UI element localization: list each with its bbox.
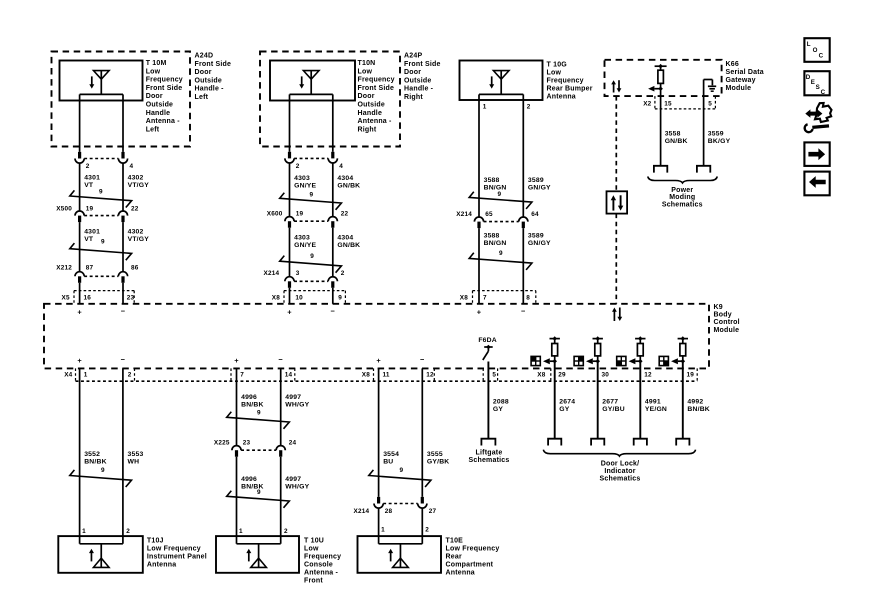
sidebar tools icon (805, 103, 832, 132)
svg-text:4302: 4302 (128, 175, 144, 182)
twisted pair (280, 253, 342, 273)
connector pin bracket a (75, 368, 77, 381)
svg-text:Door: Door (146, 93, 163, 100)
svg-text:3555: 3555 (427, 451, 443, 458)
svg-text:Moding: Moding (669, 194, 695, 201)
svg-text:14: 14 (285, 372, 293, 379)
connector pin box X8 (284, 291, 345, 304)
svg-text:Low: Low (358, 68, 373, 75)
svg-text:Low: Low (146, 68, 161, 75)
svg-text:1: 1 (84, 372, 88, 379)
svg-text:9: 9 (101, 239, 105, 246)
svg-text:Right: Right (358, 126, 377, 133)
svg-text:4301: 4301 (84, 175, 100, 182)
svg-text:15: 15 (664, 100, 672, 107)
svg-text:2674: 2674 (559, 399, 575, 406)
wire 4996 BN/BK (237, 368, 264, 445)
wire 4302 VT/GY (123, 163, 149, 211)
svg-text:Door Lock/: Door Lock/ (601, 461, 640, 468)
connector pin box X8 (473, 291, 536, 304)
twisted pair (70, 467, 132, 487)
svg-text:5: 5 (492, 372, 496, 379)
connector pin box X2 (655, 96, 716, 109)
wire (597, 361, 599, 439)
svg-text:C: C (821, 89, 826, 96)
svg-text:4302: 4302 (128, 228, 144, 235)
svg-text:Antenna: Antenna (147, 562, 176, 569)
pins 7/14 (240, 372, 292, 379)
svg-text:12: 12 (426, 372, 434, 379)
svg-text:WH: WH (128, 459, 140, 466)
svg-text:11: 11 (383, 372, 390, 379)
label Power Moding Schematics (662, 187, 703, 208)
wire (79, 283, 81, 304)
wire 4301 VT (80, 222, 101, 272)
off-page stub (676, 439, 689, 446)
svg-text:3553: 3553 (128, 451, 144, 458)
antenna T10N box (270, 61, 355, 101)
connector X600 pins 19/22 terminals (267, 210, 349, 227)
svg-text:BN/BK: BN/BK (84, 459, 107, 466)
svg-text:Gateway: Gateway (726, 77, 756, 84)
svg-text:X8: X8 (362, 372, 370, 379)
resistor (552, 339, 558, 362)
svg-text:T10E: T10E (446, 538, 464, 545)
resistor (680, 339, 686, 362)
off-page stub 3559 (697, 166, 710, 173)
twisted pair (280, 191, 342, 209)
pins X8 11/12 (362, 372, 434, 379)
connector pin row dotted line (76, 380, 698, 382)
svg-text:S: S (816, 84, 820, 91)
svg-text:4304: 4304 (337, 175, 353, 182)
wire 3589 GN/GY (523, 228, 551, 304)
connector pin bracket h (497, 368, 499, 381)
polarity + - (477, 306, 526, 316)
svg-text:GY: GY (559, 406, 569, 413)
polarity marks above bottom pins (77, 355, 425, 365)
svg-text:GY: GY (493, 406, 503, 413)
svg-text:GY/BU: GY/BU (602, 406, 625, 413)
antenna T10E box (358, 536, 442, 573)
svg-text:Antenna -: Antenna - (146, 118, 181, 125)
svg-text:Frequency: Frequency (358, 77, 395, 84)
svg-text:27: 27 (429, 508, 437, 515)
svg-text:T10J: T10J (147, 538, 164, 545)
svg-text:O: O (813, 47, 818, 54)
svg-text:7: 7 (240, 372, 244, 379)
svg-text:X212: X212 (56, 265, 72, 272)
sidebar back arrow button (804, 172, 829, 196)
pins 1/2 (483, 103, 531, 110)
antenna symbol T10J (80, 544, 123, 568)
svg-text:Low Frequency: Low Frequency (147, 546, 201, 553)
wire (332, 288, 334, 304)
terminating resistor (655, 64, 667, 89)
svg-text:BU: BU (383, 459, 393, 466)
junction node with arrow (671, 358, 685, 364)
junction node (550, 336, 560, 341)
serial data arrows in K66 (611, 80, 621, 92)
svg-text:VT: VT (84, 182, 94, 189)
wire (80, 94, 123, 151)
svg-text:3589: 3589 (528, 232, 544, 239)
svg-text:Front: Front (304, 578, 323, 585)
svg-text:19: 19 (296, 210, 304, 217)
junction node (635, 336, 645, 341)
svg-text:Handle -: Handle - (195, 86, 225, 93)
serial data connector symbol box (607, 191, 628, 213)
connector pin bracket i (550, 368, 552, 381)
svg-text:Front Side: Front Side (146, 85, 183, 92)
svg-text:19: 19 (687, 372, 695, 379)
svg-text:3588: 3588 (484, 232, 500, 239)
svg-text:4992: 4992 (687, 399, 703, 406)
svg-text:86: 86 (131, 265, 139, 272)
svg-text:−: − (331, 306, 336, 315)
svg-text:T10N: T10N (358, 60, 376, 67)
svg-text:3554: 3554 (383, 451, 399, 458)
connector X225 pins 23/24 terminals (214, 439, 297, 456)
connector pin bracket b (134, 368, 136, 381)
svg-text:Body: Body (714, 312, 732, 319)
connector pin bracket j (696, 368, 698, 381)
svg-text:Door: Door (358, 93, 375, 100)
connector pin bracket d (294, 368, 296, 381)
svg-text:23: 23 (127, 294, 135, 301)
junction node (678, 336, 688, 341)
svg-text:WH/GY: WH/GY (285, 484, 309, 491)
pin 5 (492, 372, 496, 379)
svg-text:+: + (376, 356, 381, 365)
connector X500 pins 19/22 terminals (56, 206, 138, 223)
svg-text:8: 8 (526, 294, 530, 301)
polarity + - (287, 306, 335, 316)
svg-text:3558: 3558 (665, 130, 681, 137)
svg-text:Frequency: Frequency (547, 78, 584, 85)
svg-text:Outside: Outside (146, 102, 173, 109)
svg-text:4996: 4996 (241, 476, 257, 483)
wire 3553 WH (123, 368, 144, 543)
svg-text:2: 2 (296, 163, 300, 170)
svg-text:X8: X8 (272, 294, 280, 301)
svg-text:4991: 4991 (645, 399, 661, 406)
svg-text:Left: Left (195, 94, 209, 101)
svg-text:9: 9 (99, 189, 103, 196)
svg-text:4: 4 (339, 163, 343, 170)
svg-text:Front Side: Front Side (195, 61, 232, 68)
pins X8 10/9 (272, 294, 342, 301)
svg-text:T 10G: T 10G (547, 62, 568, 69)
svg-text:Outside: Outside (195, 77, 222, 84)
svg-text:−: − (521, 306, 526, 315)
connector pin box X5 (74, 291, 134, 304)
svg-text:Door: Door (404, 69, 421, 76)
wire (289, 288, 291, 304)
wire 4304 GN/BK (333, 228, 361, 277)
svg-text:−: − (278, 355, 283, 364)
svg-text:4301: 4301 (84, 228, 100, 235)
svg-text:9: 9 (101, 467, 105, 474)
svg-text:A24D: A24D (195, 53, 214, 60)
pins X2 15/5 (643, 100, 712, 107)
label Liftgate Schematics (469, 449, 510, 464)
wire 2088 GY (488, 362, 508, 439)
fuse F6DA (478, 337, 497, 360)
svg-text:3: 3 (296, 270, 300, 277)
antenna symbol T10E (379, 544, 423, 568)
svg-text:65: 65 (485, 211, 493, 218)
wire 3588 BN/GN (479, 94, 523, 216)
connector X214 pins 65/64 terminals (456, 211, 539, 228)
svg-text:22: 22 (341, 210, 349, 217)
wire 4991 YE/GN (645, 399, 667, 414)
svg-text:9: 9 (310, 191, 314, 198)
wire (378, 508, 380, 544)
svg-text:9: 9 (338, 294, 342, 301)
pins 1/2 (381, 527, 429, 534)
svg-text:X600: X600 (267, 210, 283, 217)
svg-text:VT: VT (84, 236, 94, 243)
svg-text:−: − (420, 355, 425, 364)
svg-text:10: 10 (295, 294, 303, 301)
label T 10M Low Frequency Front Side Door Outside Handle Antenna - Left (146, 60, 183, 133)
door indicator icon (531, 356, 540, 365)
svg-text:2088: 2088 (493, 399, 509, 406)
svg-text:BN/GN: BN/GN (484, 240, 507, 247)
svg-text:YE/GN: YE/GN (645, 406, 667, 413)
svg-text:BK/GY: BK/GY (708, 138, 731, 145)
label A24D Front Side Door Outside Handle - Left (195, 53, 232, 102)
antenna T10J box (58, 536, 143, 573)
wire 3588 BN/GN (479, 228, 507, 304)
wire 4303 GN/YE (290, 228, 317, 277)
svg-text:9: 9 (498, 191, 502, 198)
svg-text:Outside: Outside (358, 102, 385, 109)
serial data dashed wire (615, 214, 617, 304)
wire 4301 VT (80, 163, 101, 211)
svg-text:Instrument Panel: Instrument Panel (147, 554, 207, 561)
svg-text:Handle -: Handle - (404, 86, 434, 93)
svg-text:Front Side: Front Side (358, 85, 395, 92)
svg-text:12: 12 (644, 372, 652, 379)
junction node with arrow (629, 358, 643, 364)
module A24D dashed box (52, 52, 191, 147)
wire (554, 361, 556, 439)
svg-text:2: 2 (128, 372, 132, 379)
pins X8 7/8 (460, 294, 531, 301)
svg-text:19: 19 (86, 206, 94, 213)
wire 4302 VT/GY (123, 222, 149, 272)
svg-text:GN/BK: GN/BK (665, 138, 688, 145)
polarity + - (77, 306, 125, 316)
arrows in serial data box (611, 195, 624, 210)
svg-text:+: + (287, 307, 292, 316)
sidebar forward arrow button (804, 142, 829, 166)
svg-text:X214: X214 (354, 508, 370, 515)
svg-text:L: L (807, 41, 811, 48)
pins X5 16/23 (62, 294, 135, 301)
svg-text:16: 16 (84, 294, 92, 301)
svg-text:X214: X214 (264, 270, 280, 277)
svg-text:GN/YE: GN/YE (294, 183, 316, 190)
wire 2677 GY/BU (602, 399, 625, 414)
svg-text:X2: X2 (643, 100, 651, 107)
antenna T 10U box (216, 536, 299, 573)
off-page stub 2088 (481, 439, 495, 446)
svg-text:+: + (77, 356, 82, 365)
svg-text:1: 1 (239, 528, 243, 535)
svg-text:Control: Control (714, 319, 740, 326)
svg-text:Schematics: Schematics (662, 201, 703, 208)
svg-text:X8: X8 (460, 294, 468, 301)
svg-text:VT/GY: VT/GY (128, 182, 150, 189)
brace Door Lock Indicator (543, 450, 695, 456)
svg-text:Rear Bumper: Rear Bumper (547, 86, 593, 93)
svg-text:BN/BK: BN/BK (687, 406, 710, 413)
svg-text:Handle: Handle (146, 110, 171, 117)
svg-text:X5: X5 (62, 294, 70, 301)
svg-text:X4: X4 (64, 372, 72, 379)
svg-text:X225: X225 (214, 439, 230, 446)
svg-text:E: E (811, 79, 815, 86)
svg-text:2677: 2677 (602, 399, 618, 406)
svg-text:Liftgate: Liftgate (476, 449, 503, 456)
wire 3558 GN/BK (661, 89, 688, 166)
off-page stub (634, 439, 647, 446)
svg-text:28: 28 (385, 508, 393, 515)
junction node with arrow (586, 358, 600, 364)
label Door Lock/ Indicator Schematics (600, 461, 641, 483)
sidebar DESC button (804, 71, 829, 96)
wire 3552 BN/BK (80, 368, 107, 543)
svg-text:2: 2 (527, 103, 531, 110)
module A24P dashed box (260, 52, 400, 147)
svg-text:GN/YE: GN/YE (294, 242, 316, 249)
label A24P Front Side Door Outside Handle - Right (404, 53, 441, 102)
label T10J Low Frequency Instrument Panel Antenna (147, 538, 207, 569)
connector X214 pins 28/27 terminals (354, 497, 437, 515)
svg-text:24: 24 (289, 439, 297, 446)
svg-text:F6DA: F6DA (478, 337, 497, 344)
svg-text:Serial Data: Serial Data (726, 69, 764, 76)
connector pin bracket c (230, 368, 232, 381)
svg-text:4304: 4304 (337, 235, 353, 242)
wire 3589 GN/GY (523, 94, 551, 216)
twisted pair (70, 239, 132, 261)
wire (682, 361, 684, 439)
off-page stub (591, 439, 604, 446)
label K66 Serial Data Gateway Module (726, 61, 764, 92)
svg-text:Right: Right (404, 94, 423, 101)
svg-text:3589: 3589 (528, 177, 544, 184)
resistor (637, 339, 643, 362)
module K9 Body Control Module dashed box (44, 304, 709, 369)
svg-text:−: − (121, 306, 126, 315)
svg-text:7: 7 (483, 294, 487, 301)
serial data arrows in BCM (612, 308, 622, 322)
wire 4997 WH/GY (281, 368, 310, 445)
svg-text:Low: Low (304, 546, 319, 553)
svg-text:4: 4 (130, 163, 134, 170)
junction node (593, 336, 603, 341)
pins 1/2 (239, 528, 288, 535)
svg-text:K9: K9 (714, 304, 723, 311)
svg-text:Schematics: Schematics (469, 457, 510, 464)
door indicator icon (659, 356, 668, 365)
svg-text:4997: 4997 (285, 394, 301, 401)
twisted pair (70, 189, 132, 208)
svg-text:4997: 4997 (285, 476, 301, 483)
junction node with arrow (543, 358, 557, 364)
svg-text:22: 22 (131, 206, 139, 213)
svg-text:GN/BK: GN/BK (337, 183, 360, 190)
svg-text:2: 2 (341, 270, 345, 277)
svg-text:GY/BK: GY/BK (427, 459, 450, 466)
antenna symbol T10N (299, 71, 319, 95)
module K66 dashed box (605, 60, 722, 96)
connector pins 2/4 terminals (285, 152, 343, 170)
connector X212 pins 87/86 terminals (56, 265, 138, 283)
twisted pair (227, 489, 290, 508)
svg-text:X500: X500 (56, 206, 72, 213)
brace Power Moding (648, 177, 718, 183)
resistor (595, 339, 601, 362)
svg-text:64: 64 (531, 211, 539, 218)
door indicator icon (574, 356, 583, 365)
svg-text:+: + (477, 307, 482, 316)
svg-text:Antenna -: Antenna - (304, 570, 339, 577)
wire 3559 BK/GY (704, 80, 731, 166)
svg-text:A24P: A24P (404, 53, 422, 60)
antenna T 10M box (60, 61, 143, 101)
svg-text:T 10U: T 10U (304, 538, 324, 545)
off-page stub (548, 439, 561, 446)
svg-text:23: 23 (243, 439, 251, 446)
svg-text:Door: Door (195, 69, 212, 76)
svg-text:WH/GY: WH/GY (285, 402, 309, 409)
svg-text:Outside: Outside (404, 77, 431, 84)
svg-text:9: 9 (400, 467, 404, 474)
svg-text:Module: Module (726, 85, 752, 92)
svg-text:Console: Console (304, 562, 333, 569)
svg-text:9: 9 (257, 410, 261, 417)
antenna symbol T 10U (237, 544, 281, 568)
wire 2674 GY (559, 399, 575, 414)
svg-text:+: + (234, 356, 239, 365)
twisted pair (227, 410, 290, 429)
antenna symbol T 10G (489, 71, 509, 95)
svg-text:5: 5 (708, 100, 712, 107)
svg-text:3552: 3552 (84, 451, 100, 458)
svg-text:Antenna: Antenna (446, 570, 475, 577)
svg-text:GN/GY: GN/GY (528, 185, 551, 192)
label T 10G Low Frequency Rear Bumper Antenna (547, 62, 593, 101)
svg-text:Frequency: Frequency (146, 77, 183, 84)
svg-text:Left: Left (146, 126, 160, 133)
connector pins 2/4 terminals (75, 152, 134, 170)
svg-text:87: 87 (86, 265, 94, 272)
svg-text:K66: K66 (726, 61, 739, 68)
twisted pair (369, 467, 431, 487)
wire (290, 94, 333, 151)
antenna T 10G box (460, 61, 543, 101)
wire 3554 BU (379, 368, 400, 497)
svg-text:9: 9 (257, 489, 261, 496)
svg-text:2: 2 (126, 528, 130, 535)
twisted pair (469, 250, 532, 270)
svg-text:9: 9 (499, 250, 503, 257)
